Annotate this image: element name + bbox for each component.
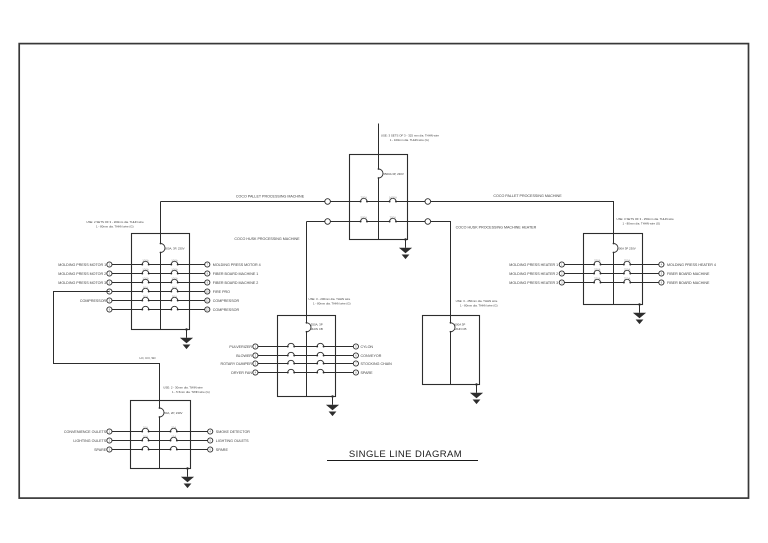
node left panel circuit 4 source xyxy=(107,289,112,294)
svg-text:USE: 3 - 250mm dia. THHN wire: USE: 3 - 250mm dia. THHN wire xyxy=(456,299,498,303)
svg-text:MOLDING PRESS MOTOR 2: MOLDING PRESS MOTOR 2 xyxy=(58,272,106,276)
svg-text:100A: 100A xyxy=(142,258,149,262)
svg-text:1 - 5.5mm dia. TWIN wire (G): 1 - 5.5mm dia. TWIN wire (G) xyxy=(172,390,210,394)
label right panel feeder conductors xyxy=(617,217,675,226)
svg-text:COMPRESSOR: COMPRESSOR xyxy=(80,299,107,303)
breaker right panel row 2 col A 250A xyxy=(593,267,601,274)
svg-text:100A: 100A xyxy=(171,267,178,271)
svg-text:SPARE: SPARE xyxy=(216,448,229,452)
label load MOLDING PRESS HEATER 4 xyxy=(667,263,716,267)
svg-text:MOLDING PRESS HEATER 4: MOLDING PRESS HEATER 4 xyxy=(667,263,716,267)
wire middle panel branch 2 xyxy=(258,355,356,357)
label load SPARE xyxy=(361,371,374,375)
svg-text:500A: 500A xyxy=(361,215,368,219)
svg-text:LO, CO, SD: LO, CO, SD xyxy=(139,356,156,360)
node left panel circuit 2 load xyxy=(205,271,210,276)
label load STOCKING CHAIN xyxy=(361,362,393,366)
breaker left panel row 5 col B xyxy=(170,294,178,301)
label load COMPRESSOR xyxy=(213,299,240,303)
svg-text:SPARE: SPARE xyxy=(361,371,374,375)
wire left panel branch 5 xyxy=(112,300,208,302)
label load DRYER FAN xyxy=(231,371,252,375)
svg-text:15A: 15A xyxy=(171,434,176,438)
svg-text:100A: 100A xyxy=(171,258,178,262)
svg-text:FIRE PRO: FIRE PRO xyxy=(213,290,230,294)
svg-text:FIBER BOARD MACHINE: FIBER BOARD MACHINE xyxy=(667,281,710,285)
breaker bottom panel main 60A 2P 230V xyxy=(159,407,183,418)
svg-text:ROTARY DUMPER: ROTARY DUMPER xyxy=(220,362,252,366)
label load FIBER BOARD MACHINE xyxy=(667,281,710,285)
wire heater panel internal riser xyxy=(450,316,452,385)
wire MDP internal feeder riser xyxy=(378,155,380,240)
svg-text:SMOKE DETECTOR: SMOKE DETECTOR xyxy=(216,430,250,434)
svg-text:1 - 80mm dia. THHN wire (G): 1 - 80mm dia. THHN wire (G) xyxy=(460,303,498,307)
wire right panel branch 3 xyxy=(564,282,661,284)
node bottom panel circuit 2 load xyxy=(208,438,213,443)
breaker middle panel row 3 col B xyxy=(316,360,324,364)
node left panel circuit 3 load xyxy=(205,280,210,285)
wire bottom panel branch 2 xyxy=(112,440,210,442)
breaker left panel row 4 col A xyxy=(141,285,149,292)
node right panel circuit 3 load xyxy=(659,280,664,285)
svg-text:20A: 20A xyxy=(171,425,176,429)
breaker left panel row 4 col B xyxy=(170,285,178,292)
svg-text:600A, 3P, 230V: 600A, 3P, 230V xyxy=(165,247,185,251)
label LO CO SD xyxy=(139,356,156,360)
label load MOLDING PRESS HEATER 2 xyxy=(509,272,558,276)
breaker right panel row 3 col A 250A xyxy=(593,276,601,283)
wire left panel branch 6 xyxy=(112,309,208,311)
node left panel circuit 5 source xyxy=(107,298,112,303)
label load FIBER BOARD MACHINE xyxy=(667,272,710,276)
svg-text:600A 3P 230V: 600A 3P 230V xyxy=(617,247,636,251)
label COCO PALLET PROCESSING MACHINE right xyxy=(493,194,562,198)
wire left panel internal riser xyxy=(160,234,162,330)
node bottom panel circuit 3 load xyxy=(208,447,213,452)
node right panel circuit 3 source xyxy=(559,280,564,285)
node left panel circuit 6 load xyxy=(205,307,210,312)
node left panel circuit 5 load xyxy=(205,298,210,303)
label load MOLDING PRESS HEATER 1 xyxy=(509,263,558,267)
breaker left panel row 2 col B xyxy=(170,267,178,274)
label load LIGHTING OULETS xyxy=(73,439,106,443)
svg-text:SINGLE LINE DIAGRAM: SINGLE LINE DIAGRAM xyxy=(349,449,462,460)
svg-text:250A: 250A xyxy=(624,267,631,271)
node bottom panel circuit 1 load xyxy=(208,429,213,434)
node left panel circuit 3 source xyxy=(107,280,112,285)
label load CONVENIENCE OULETS xyxy=(64,430,107,434)
wire feeder to heater panel xyxy=(431,222,451,316)
svg-text:MOLDING PRESS HEATER 2: MOLDING PRESS HEATER 2 xyxy=(509,272,558,276)
breaker left panel row 5 col A xyxy=(141,294,149,301)
wire feeder to middle panel xyxy=(306,222,308,316)
svg-text:USE: 2 SETS OF 3 - 200mm dia.: USE: 2 SETS OF 3 - 200mm dia. THHN wire xyxy=(86,220,144,224)
breaker middle panel row 4 col A xyxy=(287,369,295,373)
label title SINGLE LINE DIAGRAM xyxy=(327,449,478,461)
svg-text:750A: 750A xyxy=(390,215,397,219)
ground right panel xyxy=(633,303,646,324)
breaker right panel row 1 col B 250A xyxy=(623,258,631,265)
node middle panel circuit 3 source xyxy=(253,361,258,366)
svg-text:PULVERIZER: PULVERIZER xyxy=(229,345,252,349)
ground MDP xyxy=(399,238,412,259)
node bottom panel circuit 2 source xyxy=(107,438,112,443)
node right panel circuit 2 source xyxy=(559,271,564,276)
svg-text:USE: 3 SETS OF 3 - 325 mm dia.: USE: 3 SETS OF 3 - 325 mm dia. THHN wire xyxy=(381,134,439,138)
svg-text:COCO HUSK PROCESSING MACHINE: COCO HUSK PROCESSING MACHINE xyxy=(234,237,300,241)
breaker middle panel row 2 col A xyxy=(287,352,295,356)
svg-text:COCO HUSK PROCESSING MACHINE H: COCO HUSK PROCESSING MACHINE HEATER xyxy=(456,225,537,229)
meter node row1 left xyxy=(325,199,331,205)
node middle panel circuit 4 load xyxy=(353,370,358,375)
svg-text:STOCKING CHAIN: STOCKING CHAIN xyxy=(361,362,393,366)
label COCO HUSK PROCESSING MACHINE xyxy=(234,237,300,241)
wire left panel branch 1 xyxy=(112,264,208,266)
wire left panel branch 3 xyxy=(112,282,208,284)
breaker middle panel row 1 col A xyxy=(287,343,295,347)
label load CONVEYOR xyxy=(361,354,382,358)
svg-text:1 - 80mm dia. THHN wire (G): 1 - 80mm dia. THHN wire (G) xyxy=(313,301,351,305)
svg-text:1 - 100mm dia. THHN wire (G): 1 - 100mm dia. THHN wire (G) xyxy=(390,138,429,142)
svg-text:100A: 100A xyxy=(142,276,149,280)
panel molding press heaters xyxy=(584,234,643,305)
label load SPARE xyxy=(94,448,107,452)
meter node row2 right xyxy=(425,219,431,225)
panel lighting and outlets xyxy=(131,401,191,469)
svg-text:USE: 3 SETS OF 3 - 250mm dia.: USE: 3 SETS OF 3 - 250mm dia. THHN wire xyxy=(617,217,675,221)
panel MDP main distribution xyxy=(350,155,408,240)
label bottom panel feeder conductors xyxy=(163,385,209,394)
breaker bottom panel row 3 col B xyxy=(170,446,178,450)
wire right panel branch 2 xyxy=(564,273,661,275)
svg-text:20A: 20A xyxy=(143,425,148,429)
breaker middle panel row 4 col B xyxy=(316,369,324,373)
svg-text:700A: 700A xyxy=(361,195,368,199)
breaker middle panel row 1 col B xyxy=(316,343,324,347)
panel coco pallet processing machine xyxy=(132,234,190,330)
svg-text:MOLDING PRESS MOTOR 1: MOLDING PRESS MOTOR 1 xyxy=(58,263,106,267)
node middle panel circuit 4 source xyxy=(253,370,258,375)
node bottom panel circuit 3 source xyxy=(107,447,112,452)
ground heater panel xyxy=(470,383,483,404)
wire LO CO SD feeder run xyxy=(54,292,160,401)
breaker left panel row 1 col A xyxy=(141,258,149,265)
svg-text:600A 3P: 600A 3P xyxy=(454,322,465,326)
node middle panel circuit 1 source xyxy=(253,344,258,349)
breaker 1400A row1 xyxy=(389,195,397,202)
label load MOLDING PRESS MOTOR 2 xyxy=(58,272,106,276)
svg-text:COMPRESSOR: COMPRESSOR xyxy=(213,308,240,312)
ground bottom panel xyxy=(181,467,194,488)
node left panel circuit 2 source xyxy=(107,271,112,276)
label load PULVERIZER xyxy=(229,345,252,349)
wire bus row 1 COCO PALLET PROCESSING MACHINE xyxy=(161,201,614,203)
breaker right panel row 1 col A 250A xyxy=(593,258,601,265)
wire bus row 2 COCO HUSK PROCESSING MACHINE xyxy=(307,221,451,223)
breaker bottom panel row 2 col B xyxy=(170,434,178,441)
breaker right panel row 2 col B 250A xyxy=(623,267,631,274)
breaker 750A row2 xyxy=(389,215,397,222)
label service feeder conductors xyxy=(381,134,439,143)
svg-text:3500A 3P, 230V: 3500A 3P, 230V xyxy=(383,172,404,176)
label COCO PALLET PROCESSING MACHINE left xyxy=(236,194,305,198)
node middle panel circuit 2 load xyxy=(353,353,358,358)
breaker left panel row 3 col A xyxy=(141,276,149,283)
panel coco husk processing machine xyxy=(278,316,336,397)
svg-text:1400A: 1400A xyxy=(389,195,397,199)
svg-text:FIBER BOARD MACHINE 2: FIBER BOARD MACHINE 2 xyxy=(213,281,259,285)
breaker left panel row 6 col A xyxy=(141,306,149,310)
breaker bottom panel row 1 col B xyxy=(170,425,178,432)
label load MOLDING PRESS MOTOR 1 xyxy=(58,263,106,267)
svg-text:COCO PALLET PROCESSING MACHINE: COCO PALLET PROCESSING MACHINE xyxy=(236,194,305,198)
node left panel circuit 4 load xyxy=(205,289,210,294)
svg-text:1 - 80mm dia. THHN wire (G): 1 - 80mm dia. THHN wire (G) xyxy=(96,224,134,228)
node right panel circuit 1 load xyxy=(659,262,664,267)
label heater panel feeder conductors xyxy=(456,299,498,308)
breaker left panel main 600A 3P 230V xyxy=(160,243,185,254)
svg-text:MAIN CB: MAIN CB xyxy=(311,327,323,331)
svg-text:60A: 60A xyxy=(172,285,177,289)
svg-text:100A: 100A xyxy=(171,276,178,280)
label load ROTARY DUMPER xyxy=(220,362,252,366)
node left panel circuit 1 load xyxy=(205,262,210,267)
wire middle panel branch 1 xyxy=(258,346,356,348)
wire bottom panel internal riser xyxy=(159,401,161,469)
breaker main CB 3500A 3P 230V xyxy=(378,168,404,179)
wire feeder to right panel xyxy=(431,202,614,234)
node left panel circuit 1 source xyxy=(107,262,112,267)
label middle panel feeder conductors xyxy=(309,297,351,306)
svg-text:LIGHTING OULETS: LIGHTING OULETS xyxy=(73,439,106,443)
svg-text:50A: 50A xyxy=(143,294,148,298)
breaker 500A row2 xyxy=(360,215,368,222)
svg-text:COCO PALLET PROCESSING MACHINE: COCO PALLET PROCESSING MACHINE xyxy=(493,194,562,198)
breaker middle panel main 350A 3P xyxy=(306,322,323,333)
wire bottom panel branch 1 xyxy=(112,431,210,433)
label load MOLDING PRESS MOTOR 3 xyxy=(58,281,106,285)
breaker right panel main 600A 3P 230V xyxy=(613,243,636,254)
svg-text:250A: 250A xyxy=(624,258,631,262)
wire incoming service feeder xyxy=(378,124,380,155)
svg-text:SPARE: SPARE xyxy=(94,448,107,452)
label load SMOKE DETECTOR xyxy=(216,430,250,434)
wire right panel internal riser xyxy=(613,234,615,305)
svg-text:350A, 3P: 350A, 3P xyxy=(311,322,323,326)
label load LIGHTING OULETS xyxy=(216,439,249,443)
svg-text:100A: 100A xyxy=(142,267,149,271)
label load FIBER BOARD MACHINE 2 xyxy=(213,281,259,285)
svg-text:USE: 3 - 200mm dia. THHN wire: USE: 3 - 200mm dia. THHN wire xyxy=(309,297,351,301)
breaker bottom panel row 1 col A xyxy=(141,425,149,432)
wire left panel branch 2 xyxy=(112,273,208,275)
breaker left panel row 3 col B xyxy=(170,276,178,283)
svg-text:250A: 250A xyxy=(624,276,631,280)
svg-text:250A: 250A xyxy=(594,258,601,262)
svg-text:LIGHTING OULETS: LIGHTING OULETS xyxy=(216,439,249,443)
breaker right panel row 3 col B 250A xyxy=(623,276,631,283)
panel coco husk processing machine heater xyxy=(423,316,480,385)
node right panel circuit 1 source xyxy=(559,262,564,267)
svg-text:MOLDING PRESS MOTOR 3: MOLDING PRESS MOTOR 3 xyxy=(58,281,106,285)
svg-text:MOLDING PRESS MOTOR 4: MOLDING PRESS MOTOR 4 xyxy=(213,263,261,267)
node middle panel circuit 1 load xyxy=(353,344,358,349)
svg-text:MAIN CB: MAIN CB xyxy=(454,327,466,331)
label COCO HUSK PROCESSING MACHINE HEATER xyxy=(456,225,537,229)
breaker middle panel row 3 col A xyxy=(287,360,295,364)
svg-text:250A: 250A xyxy=(594,267,601,271)
breaker middle panel row 2 col B xyxy=(316,352,324,356)
label load COMPRESSOR xyxy=(213,308,240,312)
breaker left panel row 2 col A xyxy=(141,267,149,274)
svg-text:CYLON: CYLON xyxy=(361,345,374,349)
ground left panel xyxy=(180,328,193,349)
node bottom panel circuit 1 source xyxy=(107,429,112,434)
breaker heater panel main 600A 3P xyxy=(450,322,467,333)
label load MOLDING PRESS MOTOR 4 xyxy=(213,263,261,267)
svg-text:60A: 60A xyxy=(143,285,148,289)
svg-text:FIBER BOARD MACHINE 1: FIBER BOARD MACHINE 1 xyxy=(213,272,259,276)
node left panel circuit 6 source xyxy=(107,307,112,312)
label load BLOWER xyxy=(236,354,252,358)
svg-text:BLOWER: BLOWER xyxy=(236,354,252,358)
breaker bottom panel row 2 col A xyxy=(141,434,149,441)
svg-text:CONVEYOR: CONVEYOR xyxy=(361,354,382,358)
svg-text:DRYER FAN: DRYER FAN xyxy=(231,371,252,375)
wire middle panel branch 4 xyxy=(258,372,356,374)
wire middle panel branch 3 xyxy=(258,363,356,365)
svg-text:MOLDING PRESS HEATER 3: MOLDING PRESS HEATER 3 xyxy=(509,281,558,285)
label load FIBER BOARD MACHINE 1 xyxy=(213,272,259,276)
node middle panel circuit 3 load xyxy=(353,361,358,366)
node right panel circuit 2 load xyxy=(659,271,664,276)
svg-text:COMPRESSOR: COMPRESSOR xyxy=(213,299,240,303)
label load FIRE PRO xyxy=(213,290,230,294)
meter node row2 left xyxy=(325,219,331,225)
svg-text:60A, 2P, 230V: 60A, 2P, 230V xyxy=(164,411,182,415)
svg-text:250A: 250A xyxy=(594,276,601,280)
label left panel feeder conductors xyxy=(86,220,144,229)
breaker left panel row 1 col B xyxy=(170,258,178,265)
svg-text:USE: 2 - 30mm dia. TWIN wire: USE: 2 - 30mm dia. TWIN wire xyxy=(163,385,203,389)
svg-text:20A: 20A xyxy=(143,434,148,438)
ground middle panel xyxy=(326,395,339,416)
breaker 700A row1 xyxy=(360,195,368,202)
svg-text:MOLDING PRESS HEATER 1: MOLDING PRESS HEATER 1 xyxy=(509,263,558,267)
node middle panel circuit 2 source xyxy=(253,353,258,358)
label load SPARE xyxy=(216,448,229,452)
wire feeder to left panel xyxy=(160,202,162,234)
label load MOLDING PRESS HEATER 3 xyxy=(509,281,558,285)
wire left panel branch 4 xyxy=(109,291,207,293)
svg-text:CONVENIENCE OULETS: CONVENIENCE OULETS xyxy=(64,430,107,434)
breaker left panel row 6 col B xyxy=(170,306,178,310)
wire right panel branch 1 xyxy=(564,264,661,266)
wire bottom panel branch 3 xyxy=(112,449,210,451)
meter node row1 right xyxy=(425,199,431,205)
svg-text:FIBER BOARD MACHINE: FIBER BOARD MACHINE xyxy=(667,272,710,276)
svg-text:50A: 50A xyxy=(172,294,177,298)
svg-text:1 - 80mm dia. THHN wire (G): 1 - 80mm dia. THHN wire (G) xyxy=(623,221,661,225)
label load CYLON xyxy=(361,345,374,349)
breaker bottom panel row 3 col A xyxy=(141,446,149,450)
label load COMPRESSOR xyxy=(80,299,107,303)
wire middle panel internal riser xyxy=(306,316,308,397)
